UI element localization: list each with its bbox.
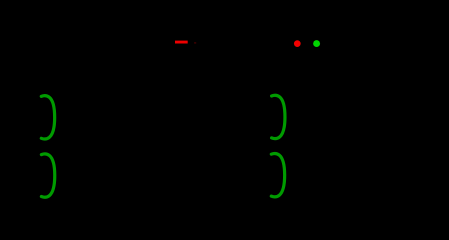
green closing parenthesis, lower-left binomial (41, 154, 54, 197)
green closing parenthesis, lower-right binomial (271, 154, 284, 197)
faint red fleck (superscript dot) (194, 42, 196, 43)
green closing parenthesis, upper-right binomial (272, 95, 285, 138)
green ball dot (313, 40, 320, 47)
red ball dot (294, 40, 301, 47)
minus sign (red) (175, 41, 188, 44)
green closing parenthesis, upper-left binomial (41, 96, 54, 139)
